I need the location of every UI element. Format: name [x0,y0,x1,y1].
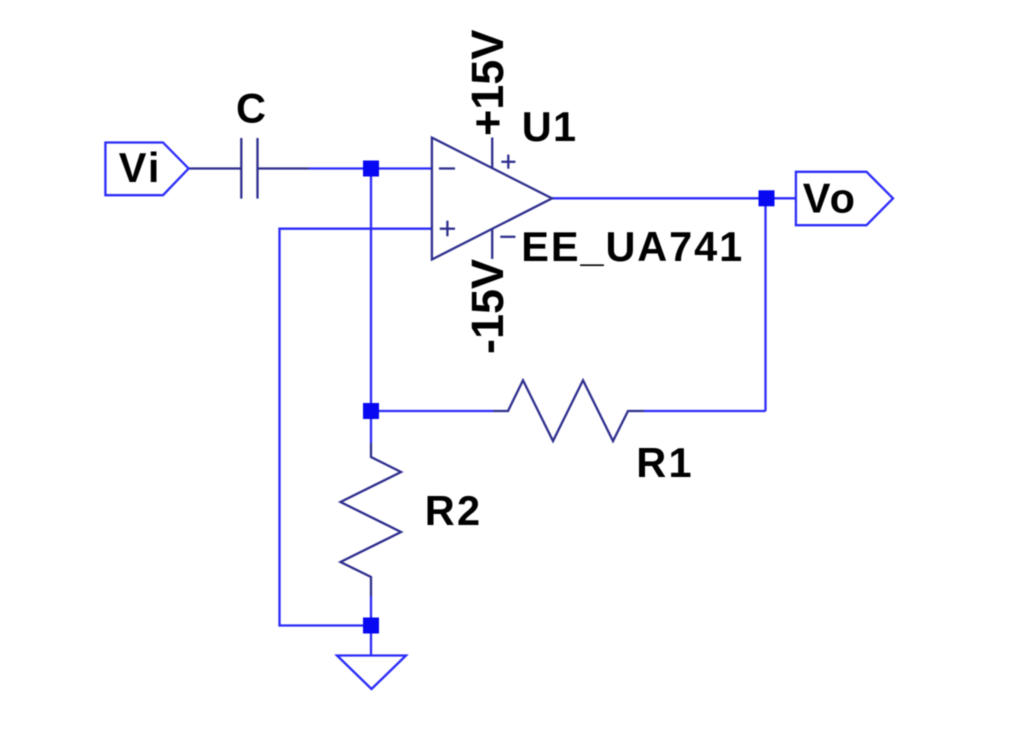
svg-text:Vi: Vi [119,144,162,191]
svg-text:Vo: Vo [803,174,857,221]
svg-text:R1: R1 [636,439,693,486]
svg-text:+15V: +15V [462,30,513,136]
svg-text:EE_UA741: EE_UA741 [521,223,744,270]
svg-text:-15V: -15V [462,259,513,354]
svg-text:U1: U1 [522,103,577,150]
svg-text:C: C [236,85,268,132]
svg-text:R2: R2 [425,487,482,534]
